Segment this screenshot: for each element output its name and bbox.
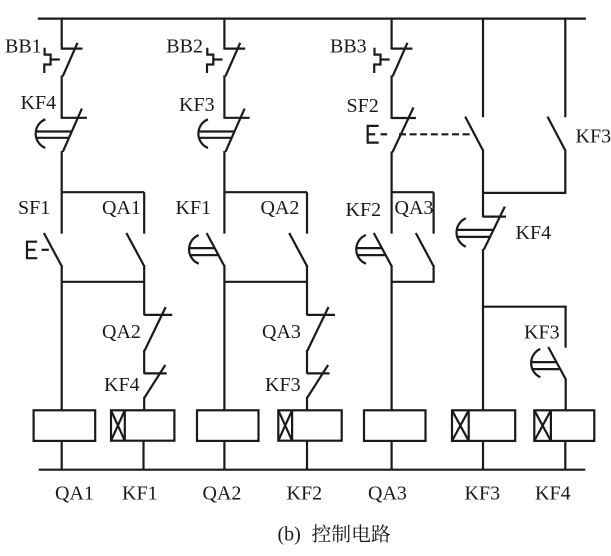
contact KF4 time-delay NC — [36, 109, 87, 152]
wire split bar col3 — [392, 191, 434, 193]
contact KF1 time-delay NO — [189, 233, 224, 266]
wire branch1: KF4 to coil KF1 — [143, 397, 145, 411]
wire branch2: KF3 to coil KF2 — [306, 397, 308, 411]
wire QA1 branch upper — [143, 192, 145, 234]
svg-text:KF2: KF2 — [346, 199, 382, 221]
contact KF2 time-delay NO — [356, 233, 391, 266]
wire coil QA3 to bottom bus — [391, 441, 393, 470]
contact KF3 time-delay NO lower — [531, 347, 566, 379]
svg-text:BB2: BB2 — [166, 35, 203, 57]
wire QA2 branch upper — [306, 192, 308, 234]
contact QA3 NO — [416, 233, 434, 266]
wire branch5: KF3 contact to coil KF4 — [565, 379, 567, 411]
svg-text:KF3: KF3 — [265, 374, 301, 396]
svg-text:KF3: KF3 — [179, 94, 215, 116]
svg-text:KF3: KF3 — [576, 126, 611, 148]
svg-text:SF2: SF2 — [347, 95, 379, 117]
contact KF3 NC lower — [307, 365, 330, 398]
wire QA3 branch upper — [433, 192, 435, 234]
svg-text:KF3: KF3 — [465, 482, 501, 504]
wire coil KF3 to bottom bus — [482, 441, 484, 470]
wire col2: KF1 to coil QA2 — [223, 265, 225, 410]
wire col1: SF1 to coil QA1 — [61, 265, 63, 410]
svg-text:KF3: KF3 — [524, 321, 560, 343]
contact SF2-linked NO — [465, 117, 483, 150]
wire SF1 branch upper — [61, 192, 63, 234]
wire coil KF4 to bottom bus — [564, 441, 566, 470]
svg-text:KF4: KF4 — [104, 374, 140, 396]
contact QA2 NC interlock — [144, 307, 172, 351]
coil QA2 — [197, 410, 259, 441]
pushbutton SF1 NO with E operator — [27, 233, 61, 266]
coil QA3 — [364, 410, 426, 441]
wire coil QA2 to bottom bus — [223, 441, 225, 470]
wire rejoin bar col1 — [62, 281, 145, 283]
svg-text:QA3: QA3 — [262, 321, 301, 343]
thermal operator of BB1 — [44, 48, 60, 73]
wire KF2 branch upper — [391, 192, 393, 234]
coil QA1 — [34, 410, 96, 441]
coil KF1 with latch flag — [111, 410, 174, 440]
contact KF3 time-delay NC — [198, 109, 249, 152]
coil KF2 with latch flag — [278, 410, 341, 440]
wire col1: BB1 to KF4 — [61, 75, 63, 118]
contact BB1 thermal NC — [62, 43, 83, 77]
wire col5: bus to KF3 contact — [564, 18, 566, 118]
wire col3: SF2 to split — [391, 152, 393, 194]
svg-text:KF4: KF4 — [535, 482, 571, 504]
wire branch bar right — [483, 306, 567, 308]
wire coil KF2 to bottom bus — [306, 441, 308, 470]
wire KF1 branch upper — [223, 192, 225, 234]
svg-text:BB3: BB3 — [330, 35, 367, 57]
svg-text:QA2: QA2 — [102, 321, 141, 343]
thermal operator of BB2 — [207, 48, 223, 73]
bottom horizontal supply bus — [39, 469, 586, 471]
wire col1: bus to BB1 — [61, 18, 63, 50]
wire col4: KF4 contact to coil KF3 — [482, 249, 484, 410]
wire split bar col2 — [224, 191, 307, 193]
svg-text:QA2: QA2 — [203, 482, 242, 504]
wire branch2: QA3 to KF3 contact — [306, 350, 308, 374]
svg-text:SF1: SF1 — [18, 197, 50, 219]
wire col2: KF3 to split — [223, 151, 225, 193]
contact QA3 NC interlock — [307, 307, 335, 351]
contact BB3 thermal NC — [392, 43, 413, 77]
wire col2: BB2 to KF3 — [223, 75, 225, 118]
contact KF3 NO top right — [548, 117, 566, 150]
svg-text:KF4: KF4 — [21, 92, 57, 114]
wire col4: linked contact to junction — [482, 149, 484, 194]
wire col2: bus to BB2 — [223, 18, 225, 50]
contact BB2 thermal NC — [224, 43, 245, 77]
svg-text:QA2: QA2 — [261, 197, 300, 219]
contact QA1 NO — [126, 233, 143, 266]
pushbutton SF2 NC with E operator — [368, 107, 416, 152]
wire junction bar col4-col5 — [483, 192, 565, 194]
wire col3: bus to BB3 — [391, 18, 393, 50]
contact QA2 NO — [289, 233, 307, 266]
wire branch1: QA2 to KF4 contact — [143, 350, 145, 374]
svg-text:KF1: KF1 — [176, 197, 212, 219]
thermal operator of BB3 — [374, 48, 390, 73]
caption text 控制电路 (control circuit) — [312, 524, 390, 542]
wire branch2: QA2 to QA3 contact — [306, 265, 308, 315]
wire col4: junction to KF4 contact — [482, 193, 484, 217]
top horizontal supply bus — [38, 18, 586, 20]
coil KF3 with latch flag — [452, 410, 515, 441]
mechanical link dashed line SF2 to linked contact — [399, 133, 472, 135]
wire rejoin bar col3 — [392, 281, 434, 283]
wire col5: KF3 to junction — [564, 149, 566, 194]
svg-text:QA1: QA1 — [55, 482, 94, 504]
contact KF4 time-delay NC right — [456, 207, 506, 250]
wire col1: KF4 to split — [61, 151, 63, 193]
svg-text:KF1: KF1 — [122, 482, 158, 504]
wire col3: KF2 to coil QA3 — [391, 265, 393, 410]
wire branch1: QA1 to QA2 contact — [143, 265, 145, 315]
svg-text:KF4: KF4 — [516, 222, 552, 244]
svg-text:QA1: QA1 — [102, 197, 141, 219]
svg-text:BB1: BB1 — [5, 35, 42, 57]
wire rejoin bar col2 — [224, 281, 307, 283]
wire coil QA1 to bottom bus — [61, 441, 63, 470]
svg-text:QA3: QA3 — [368, 482, 407, 504]
wire branch5: bar to KF3 contact — [564, 306, 566, 348]
wire col3: BB3 to SF2 — [391, 75, 393, 119]
svg-text:(b): (b) — [278, 524, 301, 546]
svg-text:KF2: KF2 — [287, 482, 323, 504]
wire col4: bus to linked contact — [482, 18, 484, 118]
svg-text:QA3: QA3 — [395, 197, 434, 219]
wire branch3: QA3 to rejoin — [433, 265, 435, 283]
wire coil KF1 to bottom bus — [142, 441, 144, 470]
wire split bar col1 — [62, 191, 145, 193]
contact KF4 NC lower — [144, 365, 167, 398]
coil KF4 with latch flag — [534, 410, 594, 441]
